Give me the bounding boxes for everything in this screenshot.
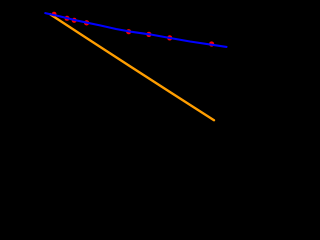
orange reference line bbox=[50, 14, 214, 120]
blue fitted curve bbox=[45, 13, 226, 47]
red data markers bbox=[52, 12, 215, 47]
